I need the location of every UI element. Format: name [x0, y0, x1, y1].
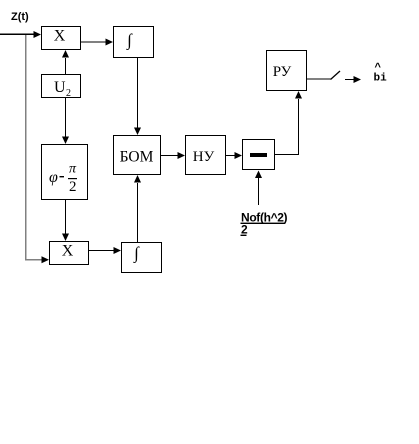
svg-text:X: X [62, 243, 74, 260]
block RU decision device [267, 51, 307, 91]
svg-text:НУ: НУ [193, 149, 215, 165]
wire input Z(t) to multiplier X1 [0, 34, 34, 36]
block SUB subtractor (minus) [243, 140, 275, 170]
svg-text:bi: bi [374, 73, 388, 85]
wire RU output to switch [307, 79, 331, 80]
svg-text:π: π [69, 162, 77, 177]
wire output arrow [345, 79, 354, 80]
svg-text:2: 2 [69, 179, 77, 195]
svg-text:φ: φ [49, 169, 58, 186]
block NU [186, 136, 226, 175]
svg-text:2: 2 [241, 223, 248, 237]
label Z(t) input signal [11, 11, 29, 23]
svg-text:Nof(h^2): Nof(h^2) [241, 211, 288, 225]
junction branch point on input wire [34, 31, 42, 38]
wire PHI down to X2 [65, 200, 66, 234]
wire grey branch from input down [25, 35, 27, 260]
block PHI phase shifter (phi - pi/2) [42, 145, 88, 200]
wire INT1 down to BOM [137, 58, 138, 128]
wire BOM to NU [161, 155, 178, 156]
wire U2 down to phase shifter [65, 98, 66, 137]
block INT1 integrator [114, 27, 154, 58]
wire NU to subtractor [226, 155, 235, 156]
wire subtractor right then up to RU [275, 99, 299, 155]
wire X2 to INT2 [89, 250, 114, 251]
switch contact (slanted) [331, 71, 341, 80]
wire INT2 up to BOM [137, 183, 138, 242]
svg-text:БОМ: БОМ [120, 149, 154, 166]
svg-text:РУ: РУ [273, 64, 292, 80]
wire X1 to integrator INT1 [81, 42, 106, 43]
label bi estimate output [374, 63, 388, 85]
svg-text:Z(t): Z(t) [11, 11, 29, 23]
wire grey branch right to X2 [25, 259, 42, 261]
block U2 reference oscillator [42, 75, 81, 100]
svg-text:2: 2 [66, 88, 71, 99]
wire U2 up to X1 [65, 58, 66, 74]
block INT2 integrator [122, 243, 162, 273]
block X1 multiplier [42, 27, 81, 50]
label Nof(h^2)/2 threshold value [241, 211, 288, 237]
svg-text:X: X [54, 28, 66, 45]
block X2 multiplier [50, 242, 89, 265]
wire threshold up to subtractor [258, 178, 259, 205]
svg-text:U: U [54, 79, 66, 96]
block BOM [114, 136, 161, 175]
